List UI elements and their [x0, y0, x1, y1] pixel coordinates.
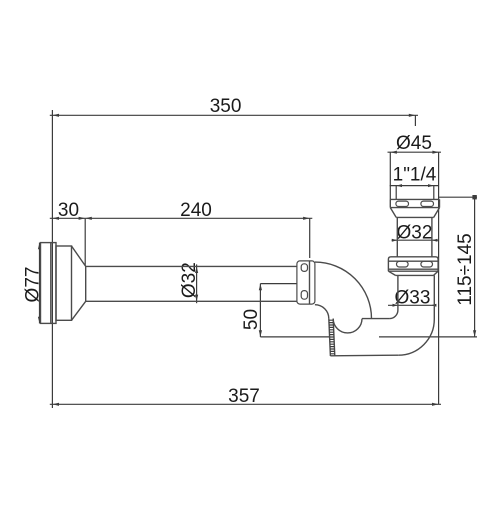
- trap body inner curve: [315, 305, 329, 319]
- inlet pipe: [86, 266, 297, 301]
- dim 1"1/4: [390, 185, 439, 187]
- svg-text:Ø32: Ø32: [179, 262, 200, 298]
- trap ribbed section: [329, 319, 335, 356]
- dim O32 riser: [392, 239, 439, 241]
- dim O45: [388, 151, 442, 153]
- dim 240 line: [85, 217, 312, 219]
- svg-text:357: 357: [228, 386, 260, 407]
- flange cone: [72, 246, 86, 320]
- svg-text:Ø32: Ø32: [397, 223, 433, 244]
- svg-text:115÷145: 115÷145: [455, 233, 476, 305]
- dim O32 inlet pipe: [196, 264, 198, 303]
- svg-text:Ø33: Ø33: [395, 288, 431, 309]
- svg-text:50: 50: [241, 309, 262, 330]
- trap riser outer elbow: [398, 275, 434, 355]
- dim O33: [388, 304, 435, 306]
- wire left extension line (wall plane): [51, 110, 53, 408]
- trap bottom edge: [330, 354, 398, 357]
- lower nut O33: [388, 257, 438, 271]
- riser pipe between nuts: [397, 217, 432, 256]
- dim 30 line: [50, 217, 85, 219]
- trap inner U dip: [333, 319, 362, 333]
- pipe nut: [297, 261, 315, 304]
- dim 115-145: [439, 196, 477, 198]
- dim 357 line: [50, 403, 441, 405]
- dim O77: [39, 243, 41, 324]
- trap body outer curve: [315, 262, 372, 319]
- trap floor line: [362, 318, 389, 320]
- flange body: [56, 246, 72, 320]
- upper nut 1"1/4: [390, 198, 439, 200]
- svg-text:350: 350: [210, 96, 242, 117]
- trap riser inner corner: [389, 275, 398, 318]
- svg-text:30: 30: [58, 200, 79, 221]
- dim 350 line: [50, 114, 418, 116]
- wire right extension line: [438, 152, 440, 404]
- svg-text:240: 240: [180, 200, 212, 221]
- svg-text:Ø45: Ø45: [396, 133, 432, 154]
- svg-text:1"1/4: 1"1/4: [393, 165, 437, 186]
- dim 50: [259, 284, 261, 337]
- flange disc: [41, 243, 57, 324]
